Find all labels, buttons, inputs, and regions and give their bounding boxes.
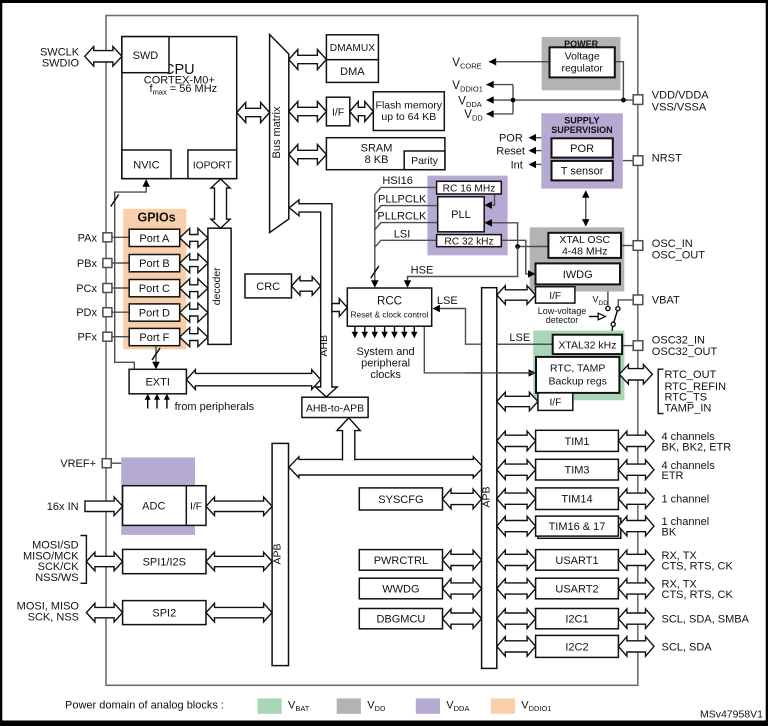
arrow USART2 pins xyxy=(618,579,654,599)
svg-text:DMAMUX: DMAMUX xyxy=(330,43,375,54)
TIM16 & 17 block xyxy=(538,518,621,538)
AHB-to-APB block xyxy=(302,397,368,417)
wire VBAT switch xyxy=(618,300,634,306)
svg-text:VDD/VDDA: VDD/VDDA xyxy=(652,90,710,102)
wire PLLPCLK xyxy=(375,206,438,213)
SPI2 block xyxy=(123,601,206,625)
DMA block xyxy=(326,60,378,83)
svg-text:regulator: regulator xyxy=(561,63,603,75)
svg-text:Power domain of analog blocks: Power domain of analog blocks : xyxy=(65,700,224,712)
svg-text:CTS, RTS, CK: CTS, RTS, CK xyxy=(662,560,734,572)
pin VBAT xyxy=(633,295,643,305)
arrow 16x IN xyxy=(85,497,123,516)
Port D block xyxy=(129,304,180,321)
arrow SPI2-APB xyxy=(206,603,272,622)
POR block xyxy=(552,138,613,157)
svg-text:APB: APB xyxy=(272,543,284,564)
IWDG block xyxy=(536,263,621,284)
PWRCTRL block xyxy=(359,550,442,571)
svg-text:PLLRCLK: PLLRCLK xyxy=(377,211,427,223)
arrow APB-USART1 xyxy=(497,550,536,570)
arrow RTC out xyxy=(619,365,652,385)
svg-text:TIM1: TIM1 xyxy=(564,436,589,448)
svg-text:1 channel: 1 channel xyxy=(662,494,710,506)
PLL block xyxy=(438,197,485,232)
svg-text:AHB-to-APB: AHB-to-APB xyxy=(306,402,364,414)
CPU block xyxy=(122,37,237,179)
svg-text:OSC_OUT: OSC_OUT xyxy=(652,250,705,262)
svg-text:TIM3: TIM3 xyxy=(564,465,589,477)
svg-text:CRC: CRC xyxy=(256,281,280,293)
svg-text:ETR: ETR xyxy=(662,470,684,482)
svg-text:Parity: Parity xyxy=(411,155,439,167)
svg-text:Port B: Port B xyxy=(139,258,170,270)
svg-text:PCx: PCx xyxy=(76,283,97,295)
svg-text:I2C2: I2C2 xyxy=(565,641,588,653)
Port A block xyxy=(129,229,180,246)
wire Int out xyxy=(530,163,541,165)
svg-text:PBx: PBx xyxy=(77,258,98,270)
pin NRST xyxy=(633,156,643,166)
Parity block xyxy=(404,151,445,170)
svg-text:IOPORT: IOPORT xyxy=(193,160,232,171)
arrow SPI1 pins xyxy=(86,552,122,571)
arrow WWDG-APB xyxy=(443,579,482,599)
svg-text:ADC: ADC xyxy=(142,501,165,513)
svg-text:VSS/VSSA: VSS/VSSA xyxy=(652,101,707,113)
svg-text:DBGMCU: DBGMCU xyxy=(376,614,425,626)
DMAMUX block xyxy=(326,35,378,60)
wire VREF+ xyxy=(112,462,122,464)
I2C2 block xyxy=(536,635,619,657)
svg-text:Port D: Port D xyxy=(139,308,170,320)
svg-text:clocks: clocks xyxy=(370,369,401,381)
low-voltage detector arrow xyxy=(589,316,598,318)
svg-text:OSC32_OUT: OSC32_OUT xyxy=(652,346,718,358)
svg-text:TIM16 & 17: TIM16 & 17 xyxy=(549,521,606,533)
NVIC block xyxy=(122,150,171,179)
SYSCFG block xyxy=(359,488,442,510)
svg-text:SPI2: SPI2 xyxy=(152,608,176,620)
arrow APB-TIM3 xyxy=(497,460,536,480)
svg-text:SPI1/I2S: SPI1/I2S xyxy=(143,557,186,569)
arrow SYSCFG-APB xyxy=(443,489,482,509)
svg-text:DMA: DMA xyxy=(340,66,365,78)
svg-text:VREF+: VREF+ xyxy=(60,458,96,470)
USART2 block xyxy=(536,578,619,599)
arrow PWRCTRL-APB xyxy=(443,550,482,570)
svg-text:MSv47958V1: MSv47958V1 xyxy=(700,709,763,721)
switch contacts xyxy=(606,306,610,310)
RTC TAMP block xyxy=(536,357,619,393)
Port F block xyxy=(129,328,180,345)
TIM14 block xyxy=(536,488,619,510)
IOPORT block xyxy=(188,150,237,179)
arrow busmatrix-DMA xyxy=(289,50,327,70)
SWD block xyxy=(122,37,169,73)
wire VDDIO1 xyxy=(487,84,514,86)
svg-text:Voltage: Voltage xyxy=(565,51,600,63)
svg-text:PFx: PFx xyxy=(77,332,97,344)
AHB bus xyxy=(289,200,337,397)
svg-text:I2C1: I2C1 xyxy=(565,614,588,626)
svg-text:IWDG: IWDG xyxy=(563,269,593,281)
svg-text:from peripherals: from peripherals xyxy=(175,401,255,413)
wire supply bracket xyxy=(512,85,514,114)
svg-text:APB: APB xyxy=(481,486,493,507)
wire PLLRCLK xyxy=(375,223,438,230)
svg-text:System and: System and xyxy=(357,346,415,358)
arrow AHB-RCC xyxy=(332,299,347,317)
ADC block xyxy=(123,486,206,526)
svg-text:detector: detector xyxy=(546,315,579,325)
wire VDDA to pin xyxy=(487,99,637,101)
SRAM block xyxy=(326,138,445,170)
svg-text:CTS, RTS, CK: CTS, RTS, CK xyxy=(662,589,734,601)
svg-text:BK, BK2, ETR: BK, BK2, ETR xyxy=(662,441,732,453)
flash I/F block xyxy=(326,97,349,126)
svg-text:SUPPLY: SUPPLY xyxy=(564,116,599,126)
XTAL OSC block xyxy=(548,233,621,258)
APB bridge bus xyxy=(289,457,483,478)
arrow TIM14 pins xyxy=(618,489,654,509)
svg-text:RTC_OUT: RTC_OUT xyxy=(665,369,717,381)
svg-text:Bus matrix: Bus matrix xyxy=(271,106,283,158)
svg-text:up to 64 KB: up to 64 KB xyxy=(381,111,436,123)
svg-text:POR: POR xyxy=(499,133,523,145)
svg-text:I/F: I/F xyxy=(549,398,561,409)
wire PCx xyxy=(111,287,129,289)
svg-text:SWD: SWD xyxy=(133,50,159,62)
EXTI block xyxy=(129,369,186,394)
wire LSI to IWDG xyxy=(501,240,534,274)
svg-text:USART1: USART1 xyxy=(555,555,598,567)
wire Reset out xyxy=(530,150,541,152)
wire RCC to RTC xyxy=(424,326,534,373)
CRC block xyxy=(245,274,292,298)
arrow supply-xtal xyxy=(585,192,587,225)
T sensor block xyxy=(552,161,613,181)
arrow CRC-AHB xyxy=(292,277,321,296)
svg-text:Port A: Port A xyxy=(139,233,170,245)
wire LSI xyxy=(375,240,437,247)
svg-text:I/F: I/F xyxy=(549,291,561,302)
arrow I2C1 pins xyxy=(618,609,654,629)
wire VCORE xyxy=(489,61,550,63)
arrow flashIF-flash xyxy=(350,102,374,122)
backup VBAT domain (green) xyxy=(533,331,624,401)
arrow Port A-decoder xyxy=(180,228,208,247)
svg-text:RTC, TAMP: RTC, TAMP xyxy=(550,363,605,375)
arrow busmatrix-flashIF xyxy=(289,102,327,122)
SPI1/I2S block xyxy=(123,549,206,573)
svg-text:PDx: PDx xyxy=(76,307,97,319)
pin OSC_IN/OSC_OUT xyxy=(633,241,643,251)
svg-text:NVIC: NVIC xyxy=(133,159,159,171)
arrow APB-USART2 xyxy=(497,579,536,599)
arrow TIM16 & 17 pins xyxy=(618,516,654,536)
svg-text:Backup regs: Backup regs xyxy=(549,376,607,388)
svg-text:BK: BK xyxy=(662,527,677,539)
pin VDD/VDDA xyxy=(633,95,643,105)
arrow Port C-decoder xyxy=(180,279,208,298)
Port B block xyxy=(129,255,180,272)
svg-text:4-48 MHz: 4-48 MHz xyxy=(562,246,608,258)
APB bus right xyxy=(482,288,497,669)
svg-text:AHB: AHB xyxy=(318,335,330,357)
svg-text:NRST: NRST xyxy=(652,153,682,165)
USART1 block xyxy=(536,550,619,571)
arrow RTCIF-APB xyxy=(497,392,538,411)
arrow SPI1-APB xyxy=(206,552,272,571)
svg-text:GPIOs: GPIOs xyxy=(137,211,175,225)
svg-text:TIM14: TIM14 xyxy=(561,494,592,506)
wire LSE crossing APB xyxy=(497,343,553,345)
arrow SPI2 pins xyxy=(86,603,122,622)
wire POR out xyxy=(530,137,541,139)
svg-text:HSE: HSE xyxy=(411,265,434,277)
svg-text:TAMP_IN: TAMP_IN xyxy=(665,403,712,415)
switch lever xyxy=(614,311,617,322)
svg-text:OSC_IN: OSC_IN xyxy=(652,238,693,250)
wire VDD switch tap xyxy=(607,292,609,307)
wire NVIC-EXTI interrupt xyxy=(115,182,147,370)
arrow APB-I2C1 xyxy=(497,609,536,629)
svg-text:RCC: RCC xyxy=(377,296,402,308)
arrow TIM3 pins xyxy=(618,460,654,480)
wire VDD xyxy=(487,113,514,115)
device boundary frame xyxy=(106,16,638,686)
svg-text:LSE: LSE xyxy=(509,332,530,344)
svg-text:Flash memory: Flash memory xyxy=(376,99,443,111)
arrow I2C2 pins xyxy=(618,637,654,657)
SPI1 bracket xyxy=(81,536,87,584)
EXTI input arrows xyxy=(147,399,149,409)
svg-text:Reset: Reset xyxy=(496,146,525,158)
RCC block xyxy=(347,288,431,326)
svg-text:Port C: Port C xyxy=(139,283,170,295)
arrow APB-TIM14 xyxy=(497,489,536,509)
switch output to backup domain xyxy=(611,327,614,331)
svg-text:SWDIO: SWDIO xyxy=(42,57,80,69)
pin PFx xyxy=(103,332,112,341)
RCC clock outputs xyxy=(354,326,356,332)
APB bus left xyxy=(272,443,288,665)
Voltage regulator block xyxy=(550,47,615,77)
bus matrix xyxy=(270,35,289,233)
legend VDD swatch xyxy=(337,698,361,713)
wire PBx xyxy=(111,262,129,264)
wire clock bundle to RCC xyxy=(374,195,376,286)
arrow busmatrix-SRAM xyxy=(289,145,327,165)
wire RC16-PLL xyxy=(486,194,495,205)
svg-text:Int: Int xyxy=(511,159,523,171)
svg-text:WWDG: WWDG xyxy=(382,584,419,596)
POWER domain (gray) xyxy=(542,37,621,90)
wire RCC-RTC crossing APB xyxy=(465,372,534,374)
pin PAx xyxy=(103,233,112,242)
svg-text:PWRCTRL: PWRCTRL xyxy=(374,555,428,567)
pin OSC32_IN/OSC32_OUT xyxy=(633,341,643,351)
svg-text:POR: POR xyxy=(570,143,594,155)
arrow ADC-APB xyxy=(206,497,272,516)
page border xyxy=(0,0,768,3)
clocks VDDA domain (purple) xyxy=(427,176,507,256)
wire NRST xyxy=(623,160,636,162)
TIM1 block xyxy=(536,430,619,451)
svg-text:SYSCFG: SYSCFG xyxy=(378,494,423,506)
wire LSE to RCC xyxy=(434,309,553,345)
arrow APB-TIM1 xyxy=(497,431,536,451)
wire PFx xyxy=(111,336,129,338)
pin PBx xyxy=(103,259,112,268)
svg-text:PLLPCLK: PLLPCLK xyxy=(378,194,427,206)
svg-text:decoder: decoder xyxy=(211,267,223,305)
legend VBAT swatch xyxy=(258,698,282,713)
arrow APB-TIM16 & 17 xyxy=(497,516,536,536)
RTC pins bracket xyxy=(658,369,663,413)
I2C1 block xyxy=(536,609,619,629)
DBGMCU block xyxy=(359,609,442,629)
svg-text:16x IN: 16x IN xyxy=(47,501,79,513)
pin VREF+ xyxy=(102,459,111,468)
wire HSI16 xyxy=(375,187,437,194)
wire PortF-EXTI xyxy=(155,346,157,368)
arrow Port D-decoder xyxy=(180,303,208,322)
svg-text:SCK, NSS: SCK, NSS xyxy=(28,612,79,624)
arrow USART1 pins xyxy=(618,550,654,570)
arrow bridge-AHB-to-APB xyxy=(337,418,360,461)
svg-text:XTAL OSC: XTAL OSC xyxy=(559,234,610,246)
svg-text:OSC32_IN: OSC32_IN xyxy=(652,334,705,346)
arrow IOPORT-decoder xyxy=(211,179,230,228)
svg-text:PLL: PLL xyxy=(451,209,471,221)
svg-text:SRAM: SRAM xyxy=(361,143,393,155)
svg-text:peripheral: peripheral xyxy=(361,357,410,369)
arrow IWDGIF-APB xyxy=(497,286,536,305)
arrow APB-I2C2 xyxy=(497,637,536,657)
svg-text:LSE: LSE xyxy=(437,295,458,307)
wire PDx xyxy=(111,311,129,313)
WWDG block xyxy=(359,578,442,599)
legend VDDA swatch xyxy=(416,698,440,713)
RTC I/F block xyxy=(538,393,573,411)
wire OSC pins xyxy=(621,245,636,247)
arrow Port B-decoder xyxy=(180,254,208,273)
arrow DBGMCU-APB xyxy=(443,609,482,629)
svg-text:PAx: PAx xyxy=(78,232,98,244)
RC 16 MHz block xyxy=(437,181,502,194)
svg-text:Port F: Port F xyxy=(139,332,169,344)
legend VDDIO1 swatch xyxy=(491,698,515,713)
wire regulator output xyxy=(615,62,624,100)
wire XTAL-PLL-HSE junction xyxy=(486,223,548,247)
wire OSC32 pins xyxy=(622,345,636,347)
TIM3 block xyxy=(536,459,619,480)
svg-text:LSI: LSI xyxy=(394,229,411,241)
svg-text:USART2: USART2 xyxy=(555,584,598,596)
svg-text:I/F: I/F xyxy=(332,106,344,118)
Port C block xyxy=(129,280,180,297)
wire HSE to RCC xyxy=(408,247,518,287)
svg-text:Reset & clock control: Reset & clock control xyxy=(351,310,429,320)
svg-text:RTC_TS: RTC_TS xyxy=(665,391,708,403)
arrow EXTI-AHB xyxy=(186,370,320,390)
IWDG I/F block xyxy=(536,287,575,303)
svg-text:RC 32 kHz: RC 32 kHz xyxy=(444,236,493,247)
svg-text:8 KB: 8 KB xyxy=(365,154,389,166)
svg-text:RC 16 MHz: RC 16 MHz xyxy=(443,183,496,194)
oscillator VDD domain (gray) xyxy=(530,227,625,291)
RC 32 kHz block xyxy=(437,235,502,247)
svg-text:T sensor: T sensor xyxy=(561,166,604,178)
pin PCx xyxy=(103,284,112,293)
svg-text:HSI16: HSI16 xyxy=(382,175,413,187)
svg-text:SCL, SDA, SMBA: SCL, SDA, SMBA xyxy=(662,614,750,626)
arrow CPU-busmatrix xyxy=(237,103,270,123)
GPIOs VDDIO1 domain (orange) xyxy=(123,209,186,350)
arrow Port F-decoder xyxy=(180,328,208,347)
svg-text:I/F: I/F xyxy=(190,502,202,513)
svg-text:EXTI: EXTI xyxy=(145,377,169,389)
SUPPLY SUPERVISION domain (purple) xyxy=(541,113,623,188)
wire PAx xyxy=(111,236,129,238)
ADC VDDA domain (purple) xyxy=(121,457,195,535)
svg-text:VBAT: VBAT xyxy=(652,295,680,307)
decoder block xyxy=(208,228,231,344)
pin PDx xyxy=(103,308,112,317)
svg-text:NSS/WS: NSS/WS xyxy=(35,572,78,584)
Flash memory block xyxy=(373,92,444,131)
svg-text:SCL, SDA: SCL, SDA xyxy=(662,641,713,653)
arrow SWD debug xyxy=(85,47,122,67)
XTAL32 kHz block xyxy=(553,335,622,354)
svg-text:XTAL32 kHz: XTAL32 kHz xyxy=(558,339,616,351)
arrow TIM1 pins xyxy=(618,431,654,451)
svg-text:SUPERVISION: SUPERVISION xyxy=(551,125,612,135)
